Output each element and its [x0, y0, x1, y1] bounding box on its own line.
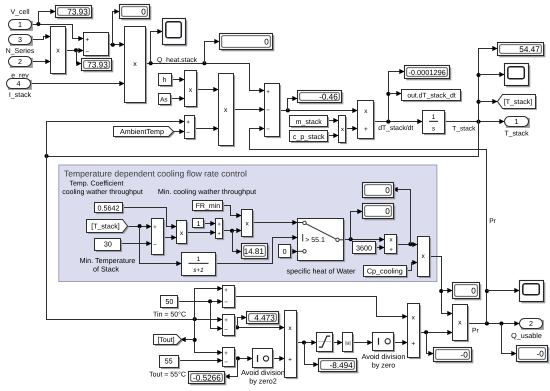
svg-text:I_stack: I_stack — [9, 91, 32, 99]
svg-text:73.93: 73.93 — [87, 60, 108, 69]
svg-text:> 55.1: > 55.1 — [305, 237, 325, 244]
svg-text:-0.5266: -0.5266 — [193, 373, 221, 382]
svg-text:Temperature dependent cooling: Temperature dependent cooling flow rate … — [64, 168, 247, 178]
svg-text:0: 0 — [283, 247, 287, 256]
svg-text:+: + — [266, 88, 270, 95]
svg-text:Q_usable: Q_usable — [511, 331, 542, 340]
svg-text:specific heat of Water: specific heat of Water — [287, 266, 356, 275]
svg-text:by zero2: by zero2 — [249, 376, 277, 385]
svg-text:14.81: 14.81 — [244, 247, 265, 256]
svg-text:by zero: by zero — [372, 360, 396, 369]
svg-text:x: x — [224, 107, 228, 114]
svg-text:+: + — [224, 350, 228, 357]
svg-text:+: + — [153, 224, 157, 231]
svg-text:50: 50 — [165, 297, 173, 306]
svg-text:x: x — [189, 87, 193, 94]
svg-text:Temp. Coefficient: Temp. Coefficient — [70, 179, 124, 187]
svg-text:|u|: |u| — [345, 341, 351, 347]
svg-text:0: 0 — [385, 186, 390, 195]
svg-text:Pr: Pr — [489, 218, 496, 225]
svg-text:−: − — [224, 326, 228, 333]
svg-text:−: − — [186, 130, 190, 136]
svg-text:+: + — [224, 317, 228, 324]
svg-text:out.dT_stack_dt: out.dT_stack_dt — [407, 93, 455, 100]
svg-text:73.93: 73.93 — [67, 7, 88, 16]
svg-text:3600: 3600 — [356, 243, 372, 252]
svg-text:54.47: 54.47 — [519, 45, 540, 54]
svg-text:Tin = 50°C: Tin = 50°C — [153, 310, 186, 318]
svg-text:cooling wather throughput: cooling wather throughput — [62, 188, 143, 196]
svg-text:c_p_stack: c_p_stack — [293, 133, 325, 141]
svg-text:-0: -0 — [461, 350, 469, 359]
svg-text:x: x — [56, 48, 60, 55]
svg-text:T_stack: T_stack — [452, 126, 476, 133]
svg-text:AmbientTemp: AmbientTemp — [120, 127, 164, 136]
svg-text:x: x — [133, 61, 137, 68]
svg-text:1: 1 — [18, 20, 22, 29]
svg-text:1: 1 — [197, 221, 201, 228]
svg-text:2: 2 — [18, 57, 22, 66]
svg-text:+: + — [389, 246, 393, 253]
svg-text:0: 0 — [385, 207, 390, 216]
svg-text:+: + — [288, 356, 292, 363]
svg-text:55: 55 — [165, 357, 173, 366]
svg-text:of Stack: of Stack — [93, 264, 119, 273]
svg-text:V_cell: V_cell — [10, 8, 30, 16]
svg-text:3: 3 — [18, 35, 22, 44]
svg-text:T_stack: T_stack — [504, 131, 529, 138]
svg-text:h: h — [163, 76, 167, 84]
svg-text:+: + — [224, 287, 228, 294]
svg-text:FR_min: FR_min — [196, 202, 221, 210]
svg-text:1: 1 — [515, 117, 519, 126]
svg-text:0: 0 — [264, 37, 269, 46]
svg-text:-8.494: -8.494 — [330, 361, 354, 370]
svg-text:As: As — [160, 96, 167, 103]
svg-text:Pr: Pr — [472, 327, 479, 334]
svg-text:-0: -0 — [537, 349, 545, 358]
svg-text:x: x — [458, 320, 462, 327]
svg-text:+: + — [364, 126, 368, 133]
svg-text:N_Series: N_Series — [6, 47, 35, 55]
svg-text:30: 30 — [104, 240, 112, 249]
svg-text:−: − — [266, 126, 270, 133]
svg-text:-0.0001296: -0.0001296 — [408, 68, 445, 77]
svg-text:Min. cooling wather throughput: Min. cooling wather throughput — [158, 187, 256, 196]
svg-text:−: − — [224, 359, 228, 366]
svg-text:x: x — [341, 127, 344, 133]
svg-text:0: 0 — [471, 286, 476, 295]
svg-text:−: − — [266, 107, 270, 114]
svg-text:-0.46: -0.46 — [319, 92, 338, 101]
svg-text:[Tout]: [Tout] — [157, 336, 174, 344]
svg-text:2: 2 — [529, 319, 533, 328]
svg-text:−: − — [85, 49, 89, 56]
svg-text:4: 4 — [17, 79, 21, 88]
svg-text:−: − — [153, 241, 157, 248]
svg-text:+: + — [85, 37, 89, 44]
svg-text:0: 0 — [141, 7, 146, 16]
svg-text:0.5642: 0.5642 — [98, 203, 120, 212]
svg-text:+: + — [186, 120, 190, 126]
svg-text:1: 1 — [432, 114, 436, 121]
svg-text:1: 1 — [197, 256, 201, 263]
svg-text:4.473: 4.473 — [254, 313, 275, 322]
svg-text:−: − — [224, 299, 228, 306]
svg-text:[T_stack]: [T_stack] — [504, 98, 532, 106]
svg-text:Tout = 55°C: Tout = 55°C — [149, 372, 186, 379]
svg-text:[T_stack]: [T_stack] — [91, 222, 119, 230]
svg-text:Q_heat.stack: Q_heat.stack — [157, 57, 198, 64]
svg-text:s+1: s+1 — [193, 267, 203, 274]
svg-text:m_stack: m_stack — [296, 118, 323, 126]
svg-text:dT_stack/dt: dT_stack/dt — [378, 125, 413, 132]
svg-text:Cp_cooling: Cp_cooling — [367, 267, 403, 276]
svg-text:+: + — [411, 340, 415, 347]
